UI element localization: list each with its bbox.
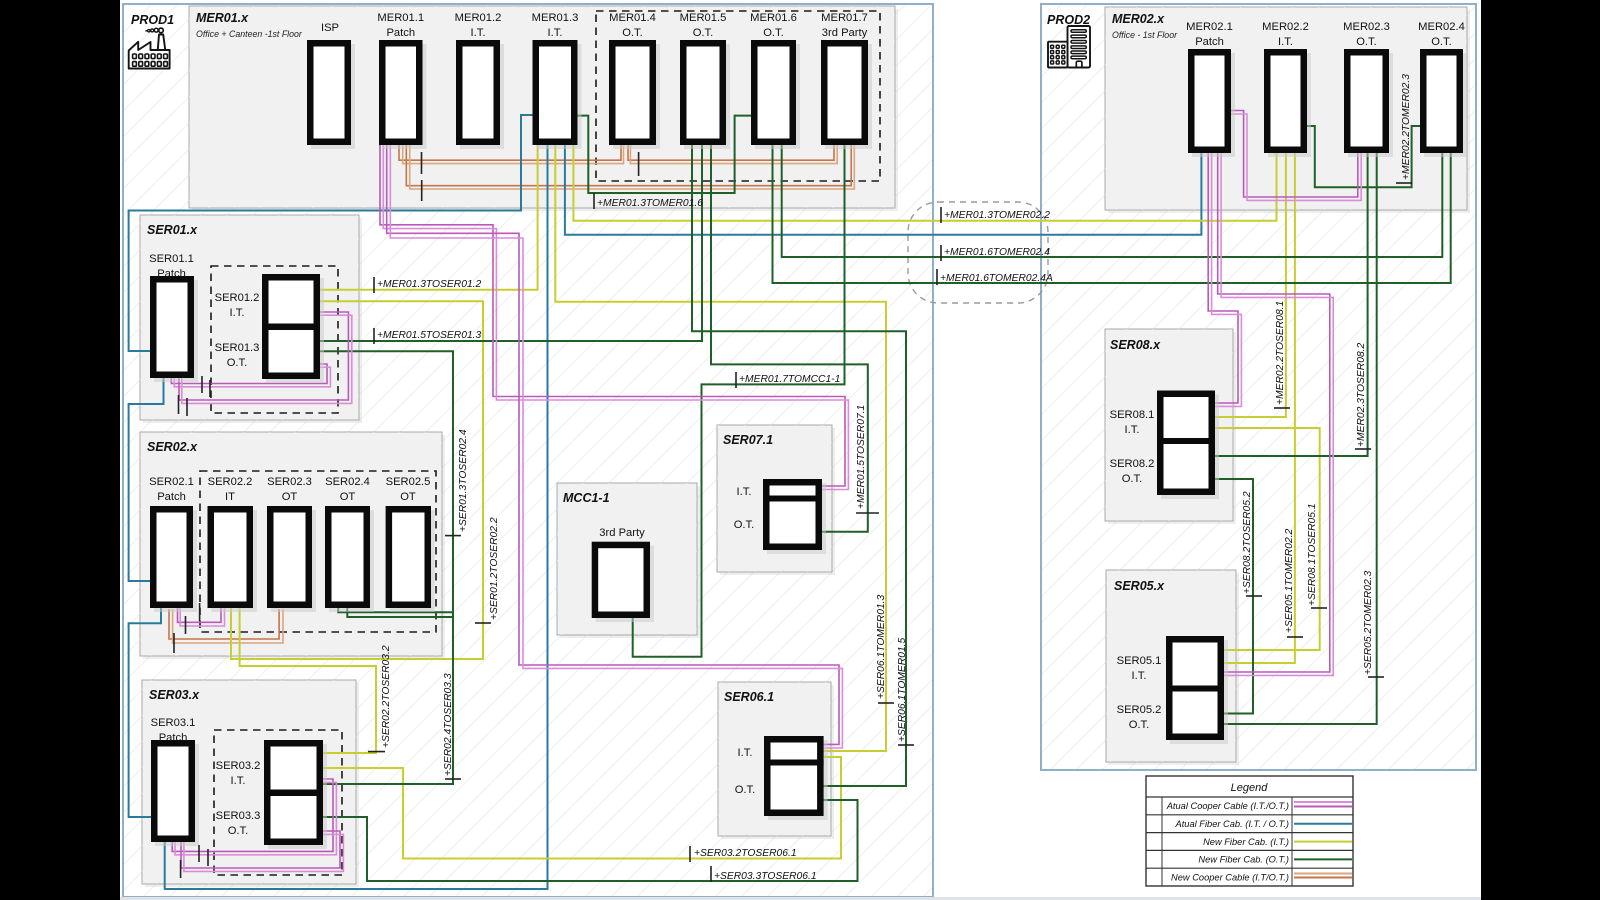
svg-text:+SER08.1TOSER05.1: +SER08.1TOSER05.1 (1307, 503, 1318, 606)
wire yellow +SER02.2TOSER03.2 (240, 607, 376, 753)
tick label SER03.2TOSER06.1 (689, 846, 691, 862)
wire copper SER02.1 to SER02.3 (line b) (173, 609, 283, 643)
wire pink SER03.1 to SER03.3 (line a) (181, 831, 340, 868)
wire pink MER02.1 to MER02.3 (line a) (1229, 111, 1358, 198)
rack MER01.7 3rd Party (824, 43, 872, 149)
svg-text:SER01.3: SER01.3 (215, 342, 260, 354)
svg-text:OT: OT (400, 491, 416, 503)
svg-text:O.T.: O.T. (763, 27, 784, 39)
rack SER02.2 IT (211, 509, 257, 612)
svg-text:Patch: Patch (157, 491, 186, 503)
vertical wire labels (381, 74, 1412, 776)
rack MER01.3 I.T. (536, 43, 582, 149)
rack SER05.1/SER05.2 stack (1166, 639, 1228, 744)
icon factory PROD1 (129, 28, 170, 68)
svg-text:+SER06.1TOMER01.5: +SER06.1TOMER01.5 (897, 637, 908, 742)
wire green +MER01.6TOMER02.4A (773, 143, 1451, 283)
svg-text:I.T.: I.T. (231, 775, 246, 787)
wire green +MER02.3TOSER08.2 (1214, 151, 1368, 456)
svg-text:SER07.1: SER07.1 (723, 433, 773, 447)
wire pink MER01.1 to SER07.1 (line b) (383, 145, 848, 490)
svg-text:PROD2: PROD2 (1047, 13, 1090, 27)
box MCC1-1 (557, 483, 700, 638)
tick wire SER08.2TOSER05.2 (1246, 595, 1262, 597)
svg-text:3rd Party: 3rd Party (822, 27, 868, 39)
wire yellow +SER03.2TOSER06.1 (321, 757, 841, 859)
svg-text:+MER02.2TOMER02.3: +MER02.2TOMER02.3 (1401, 74, 1412, 180)
svg-text:I.T.: I.T. (1132, 670, 1147, 682)
svg-text:MER02.4: MER02.4 (1418, 21, 1465, 33)
tick label MER01.3TOMER01.6 (593, 193, 595, 209)
wire fiber SER01.1 to SER02.1 (129, 378, 164, 581)
rack MER02.1 Patch (1191, 52, 1235, 157)
wire pink SER01.1 to SER01.2 (line b) (182, 315, 352, 403)
svg-text:+MER02.2TOSER08.1: +MER02.2TOSER08.1 (1275, 301, 1286, 405)
tick SER02 loop pink (185, 616, 187, 634)
tick SER02 loop pink2 (199, 603, 201, 621)
svg-text:O.T.: O.T. (1129, 719, 1150, 731)
box SER01.x (140, 215, 362, 423)
legend swatch green (1294, 858, 1352, 860)
wire yellow +MER01.3TOMER02.2 (573, 143, 1276, 221)
tick wire SER08.1TOSER05.1 (1311, 607, 1327, 609)
svg-text:SER06.1: SER06.1 (724, 690, 774, 704)
tick SER02 loop copper (173, 633, 175, 653)
svg-text:Atual Cooper Cable (I.T./O.T.): Atual Cooper Cable (I.T./O.T.) (1166, 801, 1289, 811)
wire pink MER01.1 to SER06.1 (line b) (390, 145, 842, 748)
box SER08.x (1105, 329, 1236, 524)
wire green +MER01.7TOMCC1-1 (633, 143, 845, 657)
svg-text:SER03.x: SER03.x (149, 688, 200, 702)
svg-text:+MER01.7TOMCC1-1: +MER01.7TOMCC1-1 (739, 374, 840, 385)
svg-text:Atual Fiber Cab. (I.T. / O.T.): Atual Fiber Cab. (I.T. / O.T.) (1175, 819, 1290, 829)
rack MER01.5 O.T. (683, 43, 730, 149)
svg-text:+MER01.5TOSER07.1: +MER01.5TOSER07.1 (856, 405, 867, 509)
rack SER02.4 OT (328, 509, 374, 612)
svg-text:+SER02.4TOSER03.3: +SER02.4TOSER03.3 (443, 673, 454, 776)
svg-text:I.T.: I.T. (230, 307, 245, 319)
wire pink SER01.1 to SER01.3 (line a) (171, 364, 327, 384)
rack MER02.4 O.T. (1423, 52, 1467, 157)
wire pink SER02.1 to SER02.2 (line b) (180, 607, 224, 626)
wire copper MER01.4 to MER01.7 (line a) (628, 145, 834, 160)
wire pink MER01.1 to SER06.1 (line a) (387, 145, 839, 744)
wire copper MER01.1 to MER01.4 (line a) (399, 145, 621, 160)
tick marks (174, 152, 1412, 882)
svg-text:SER01.2: SER01.2 (215, 292, 260, 304)
tick SER01 loop d (186, 398, 188, 416)
tick label MER01.5TOSER01.3 (373, 328, 375, 344)
svg-text:+MER02.3TOSER08.2: +MER02.3TOSER08.2 (1356, 342, 1367, 447)
wire green +SER05.2TOMER02.3 (1222, 151, 1377, 724)
wires: actual copper (pink) (171, 111, 1361, 872)
wire green +SER02.4TOSER03.3 (321, 607, 453, 784)
wires: new copper (orange) (169, 145, 854, 643)
tick copper pair near MER01.4 (638, 152, 640, 176)
svg-text:+SER06.1TOMER01.3: +SER06.1TOMER01.3 (876, 594, 887, 699)
icon buildings PROD2 (1048, 26, 1090, 68)
wire green +MER01.6TOMER02.4 (782, 143, 1443, 257)
svg-text:IT: IT (225, 491, 235, 503)
svg-text:+SER01.3TOSER02.4: +SER01.3TOSER02.4 (458, 429, 469, 532)
svg-text:+SER05.1TOMER02.2: +SER05.1TOMER02.2 (1284, 528, 1295, 633)
tick SER03 loop b (207, 849, 209, 866)
wire pink SER03.1 to SER03.3 (line b) (184, 834, 344, 871)
box SER03.x (142, 680, 359, 887)
rack SER01.1 Patch (153, 279, 198, 382)
rack SER02.1 Patch (153, 509, 197, 612)
svg-text:MER02.1: MER02.1 (1186, 21, 1233, 33)
legend swatch blue (1294, 823, 1352, 825)
svg-text:MER01.7: MER01.7 (821, 12, 868, 24)
svg-text:Legend: Legend (1231, 782, 1269, 794)
wire yellow +SER01.2TOSER02.2 (231, 301, 483, 659)
svg-text:Office - 1st Floor: Office - 1st Floor (1112, 30, 1178, 40)
svg-text:MER01.6: MER01.6 (750, 12, 797, 24)
svg-text:SER01.x: SER01.x (147, 223, 198, 237)
rack ISP (310, 43, 355, 149)
rack MER01.2 I.T. (459, 43, 504, 149)
svg-text:O.T.: O.T. (227, 357, 248, 369)
dashed group box SER02.2-SER02.5 (200, 471, 436, 632)
wire yellow +SER05.1TOMER02.2 (1222, 151, 1295, 663)
PROD2 container (1041, 4, 1476, 770)
svg-text:I.T.: I.T. (1278, 36, 1293, 48)
wire copper MER01.1 to MER01.4 (line b) (403, 145, 624, 164)
svg-text:+MER01.6TOMER02.4: +MER01.6TOMER02.4 (944, 247, 1050, 258)
tick label MER01.6TOMER02.4 (940, 245, 942, 261)
tick wire SER02.4TOSER03.3 (445, 778, 461, 780)
wire green +MER01.3TOMER01.6 (576, 116, 753, 193)
svg-text:MCC1-1: MCC1-1 (563, 491, 610, 505)
dashed cloud between PROD1 and PROD2 (908, 202, 1048, 303)
svg-text:+SER03.3TOSER06.1: +SER03.3TOSER06.1 (714, 871, 817, 882)
wire green +MER01.5TOSER01.3 (318, 143, 702, 341)
wire pink MER02.1 to SER08.1 (line a) (1208, 151, 1238, 403)
dashed group box SER03.2-SER03.3 (214, 730, 342, 875)
rack MCC1-1 3rd Party (595, 545, 654, 622)
wire green +SER01.3TOSER02.4 (318, 351, 453, 617)
wire yellow +MER01.3TOSER01.2 (318, 143, 538, 290)
svg-text:SER05.x: SER05.x (1114, 579, 1165, 593)
legend swatch copper pair (1294, 873, 1352, 875)
dashed group box SER01.2-SER01.3 (211, 266, 338, 413)
wire pink MER02.1 to SER05.1 (line a) (1218, 151, 1330, 672)
svg-text:+SER08.2TOSER05.2: +SER08.2TOSER05.2 (1242, 491, 1253, 594)
tick wire SER05.2TOMER02.3 (1368, 676, 1384, 678)
black side bars (0, 0, 120, 900)
wire yellow +SER06.1TOMER01.3 (555, 143, 886, 751)
tick label SER03.3TOSER06.1 (710, 866, 712, 882)
svg-text:SER08.x: SER08.x (1110, 338, 1161, 352)
svg-text:+MER01.3TOMER02.2: +MER01.3TOMER02.2 (944, 210, 1050, 221)
svg-text:SER03.3: SER03.3 (216, 810, 261, 822)
wire pink SER01.1 to SER01.2 (line a) (179, 312, 348, 400)
box MER02.x (1105, 7, 1470, 213)
svg-text:I.T.: I.T. (737, 486, 752, 498)
wire copper MER01.1 to MER01.7 (line a) (406, 145, 851, 186)
wire fiber SER02.1 to SER03.1 (129, 607, 161, 817)
rack SER02.5 OT (389, 509, 435, 612)
svg-text:O.T.: O.T. (1431, 36, 1452, 48)
tick wire SER01.2TOSER02.2 (475, 622, 491, 624)
svg-text:O.T.: O.T. (693, 27, 714, 39)
legend swatch pink pair (1294, 801, 1352, 803)
svg-text:+SER05.2TOMER02.3: +SER05.2TOMER02.3 (1363, 570, 1374, 675)
wire pink SER02.1 to SER02.2 (line a) (178, 607, 222, 622)
wire copper MER01.1 to MER01.7 (line b) (410, 145, 855, 189)
tick SER03 loop c (180, 860, 182, 878)
wire green +SER03.3TOSER06.1 (321, 800, 858, 881)
svg-text:OT: OT (282, 491, 298, 503)
svg-text:SER02.1: SER02.1 (149, 476, 194, 488)
tick copper pair near MER01.1 upper (421, 152, 423, 174)
svg-text:Office + Canteen -1st Floor: Office + Canteen -1st Floor (196, 29, 303, 39)
rack SER03.1 Patch (154, 743, 199, 846)
wire pink MER02.1 to SER05.1 (line b) (1221, 151, 1333, 675)
rack SER03.2/SER03.3 stack (264, 743, 327, 849)
svg-text:3rd Party: 3rd Party (599, 527, 645, 539)
svg-text:SER05.2: SER05.2 (1117, 704, 1162, 716)
svg-text:+SER03.2TOSER06.1: +SER03.2TOSER06.1 (694, 848, 797, 859)
tick label MER01.6TOMER02.4A (936, 269, 938, 285)
svg-text:SER02.4: SER02.4 (325, 476, 370, 488)
svg-text:New Fiber Cab. (O.T.): New Fiber Cab. (O.T.) (1198, 855, 1289, 865)
wire green +SER08.2TOSER05.2 (1214, 479, 1253, 714)
rack MER01.1 Patch (382, 43, 426, 149)
svg-text:Patch: Patch (159, 732, 188, 744)
wire fiber SER03.1 to MER01.3 (165, 143, 548, 889)
box SER05.x (1106, 570, 1239, 765)
svg-text:Patch: Patch (386, 27, 415, 39)
rack SER06.1 stack (764, 739, 828, 820)
svg-text:SER01.1: SER01.1 (149, 253, 194, 265)
rack SER07.1 stack (763, 482, 826, 554)
svg-text:O.T.: O.T. (735, 784, 756, 796)
wires: new fiber OT (dark green) (318, 116, 1451, 881)
box SER02.x (140, 432, 445, 659)
svg-text:SER02.x: SER02.x (147, 440, 198, 454)
svg-text:Patch: Patch (157, 268, 186, 280)
svg-text:MER01.1: MER01.1 (377, 12, 424, 24)
tick label MER01.7TOMCC1-1 (735, 372, 737, 388)
wire fiber MER01.3 to SER01.1 (129, 115, 534, 351)
PROD1 container (123, 4, 933, 897)
horizontal wire labels (377, 198, 1053, 882)
svg-text:MER01.x: MER01.x (196, 11, 249, 25)
rack SER02.3 OT (270, 509, 316, 612)
wire pink MER01.1 to SER07.1 (line a) (380, 145, 845, 486)
wire pink SER01.1 to SER01.3 (line b) (174, 367, 330, 387)
svg-text:+MER01.3TOMER01.6: +MER01.3TOMER01.6 (597, 198, 703, 209)
wires: actual fiber (blue) (129, 115, 1202, 889)
rack labels MER01.x row (149, 12, 1465, 837)
svg-text:MER02.x: MER02.x (1112, 12, 1165, 26)
rack MER02.2 I.T. (1267, 52, 1311, 157)
tick wire SER01.3TOSER02.4 (445, 535, 461, 537)
svg-text:I.T.: I.T. (738, 747, 753, 759)
tick SER01 loop a (201, 376, 203, 393)
tick wire MER02.2TOMER02.3 (1396, 182, 1412, 184)
legend table (1146, 776, 1353, 886)
svg-text:SER03.1: SER03.1 (151, 717, 196, 729)
svg-text:SER02.2: SER02.2 (208, 476, 253, 488)
wire pink MER02.1 to MER02.3 (line b) (1229, 114, 1361, 200)
tick wire SER06.1TOMER01.3 (878, 702, 894, 704)
tick SER01 loop b (209, 380, 211, 397)
tick copper pair near MER01.1 lower (421, 180, 423, 201)
wire green +MER01.5TOSER07.1 (711, 143, 868, 532)
rack MER01.6 O.T. (754, 43, 800, 149)
svg-text:Patch: Patch (1195, 36, 1224, 48)
svg-text:O.T.: O.T. (734, 519, 755, 531)
wire yellow +SER08.1TOSER05.1 (1214, 428, 1320, 650)
tick label MER01.3TOMER02.2 (940, 207, 942, 223)
svg-text:O.T.: O.T. (622, 27, 643, 39)
svg-text:SER03.2: SER03.2 (216, 760, 261, 772)
svg-text:New Cooper Cable (I.T/O.T.): New Cooper Cable (I.T/O.T.) (1171, 873, 1289, 883)
svg-text:SER05.1: SER05.1 (1117, 655, 1162, 667)
svg-text:MER01.3: MER01.3 (532, 12, 579, 24)
svg-text:I.T.: I.T. (548, 27, 563, 39)
wire yellow +MER02.2TOSER08.1 (1214, 151, 1286, 417)
wire copper SER02.1 to SER02.3 (line a) (169, 609, 279, 639)
tick wire MER02.3TOSER08.2 (1355, 448, 1371, 450)
tick wire SER06.1TOMER01.5 (898, 744, 914, 746)
svg-text:MER02.3: MER02.3 (1343, 21, 1390, 33)
svg-text:O.T.: O.T. (228, 825, 249, 837)
dashed group box MER01.4-MER01.7 (596, 11, 880, 181)
svg-text:MER02.2: MER02.2 (1262, 21, 1309, 33)
wire pink SER03.1 to SER03.2 (line a) (172, 779, 333, 851)
tick wire SER02.2TOSER03.2 (368, 751, 385, 753)
svg-text:+MER01.3TOSER01.2: +MER01.3TOSER01.2 (377, 279, 482, 290)
wire pink MER02.1 to SER08.1 (line b) (1212, 151, 1242, 406)
svg-text:I.T.: I.T. (1125, 424, 1140, 436)
tick wire MER01.5TOSER07.1 (856, 512, 879, 514)
svg-text:ISP: ISP (321, 22, 339, 34)
legend swatch yellow (1294, 841, 1352, 843)
wire copper MER01.4 to MER01.7 (line b) (630, 145, 837, 164)
svg-text:I.T.: I.T. (471, 27, 486, 39)
box SER06.1 (718, 682, 834, 839)
svg-text:SER02.5: SER02.5 (386, 476, 431, 488)
rack MER01.4 O.T. (612, 43, 660, 149)
rack MER02.3 O.T. (1347, 52, 1393, 157)
box SER07.1 (717, 425, 835, 575)
tick label MER01.3TOSER01.2 (373, 277, 375, 293)
svg-text:SER08.1: SER08.1 (1110, 409, 1155, 421)
tick wire MER02.2TOSER08.1 (1274, 407, 1290, 409)
svg-text:OT: OT (340, 491, 356, 503)
wire green +MER02.2TOMER02.3 (1305, 126, 1422, 187)
svg-text:+SER01.2TOSER02.2: +SER01.2TOSER02.2 (489, 517, 500, 620)
bottom gray strip (120, 897, 1481, 900)
svg-text:PROD1: PROD1 (131, 13, 174, 27)
svg-text:O.T.: O.T. (1356, 36, 1377, 48)
wire fiber MER01.3 to MER02.1 (565, 143, 1202, 235)
svg-text:O.T.: O.T. (1122, 473, 1143, 485)
tick SER03 loop a (198, 845, 200, 862)
svg-text:+MER01.5TOSER01.3: +MER01.5TOSER01.3 (377, 330, 482, 341)
rack SER08.1/SER08.2 stack (1157, 394, 1219, 499)
svg-text:SER08.2: SER08.2 (1110, 458, 1155, 470)
wires: new fiber IT (yellow) (231, 143, 1320, 859)
svg-text:SER02.3: SER02.3 (267, 476, 312, 488)
svg-text:MER01.2: MER01.2 (455, 12, 502, 24)
box MER01.x (189, 6, 898, 211)
wire green +SER06.1TOMER01.5 (692, 143, 906, 786)
svg-text:MER01.5: MER01.5 (680, 12, 727, 24)
tick wire SER05.1TOMER02.2 (1287, 636, 1303, 638)
svg-text:MER01.4: MER01.4 (609, 12, 656, 24)
tick SER01 loop c (178, 395, 180, 414)
svg-text:New Fiber Cab. (I.T.): New Fiber Cab. (I.T.) (1203, 837, 1289, 847)
rack SER01.2/SER01.3 stack (262, 277, 324, 383)
svg-text:+SER02.2TOSER03.2: +SER02.2TOSER03.2 (381, 645, 392, 748)
wire pink SER03.1 to SER03.2 (line b) (175, 782, 336, 854)
svg-text:+MER01.6TOMER02.4A: +MER01.6TOMER02.4A (940, 273, 1053, 284)
